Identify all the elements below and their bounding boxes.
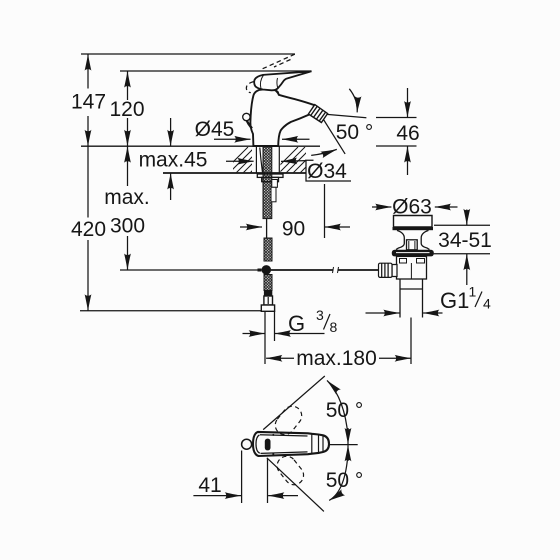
mounting washer under deck [257,174,283,177]
svg-text:4: 4 [483,296,491,312]
svg-text:G: G [288,311,305,336]
dimension O63 [372,206,458,208]
countertop deck section [81,146,320,173]
top view: pop-up knob [242,439,252,449]
dimension 147 [87,54,89,146]
deck hatching right [272,147,326,173]
svg-text:120: 120 [109,98,144,121]
top view: angle arc upper [327,380,348,436]
dimension 420 [87,146,89,311]
svg-text:G1: G1 [440,288,469,313]
angle label 50 deg (spout) [349,89,357,113]
svg-text:max.: max. [104,186,150,209]
mounting nut [262,177,279,181]
deck hatching left [222,147,276,173]
waste pivot nut [392,265,397,277]
pop-up rod guide [271,187,276,202]
flexible hose lower braid [264,275,272,291]
dimension 46 [376,88,417,175]
svg-text:1: 1 [469,284,477,300]
rod ball joint [262,265,272,275]
extension line top (raised lever level, 147/420 upper ref) [81,53,295,55]
hose curve inside deck hole [260,148,263,173]
dimension G1 1/4 [366,312,443,314]
dimension O45 [214,138,310,140]
faucet body [250,89,314,146]
svg-text:46: 46 [396,122,419,145]
dimension 90 [240,184,350,238]
waste pivot knob [379,263,393,277]
waste flange [392,250,434,257]
pop-up horizontal rod [271,269,379,271]
top view: dashed lever rotated up [271,402,305,438]
svg-text:max.180: max.180 [296,347,377,370]
dimension 41 [193,451,298,504]
label O34 with box [281,160,351,181]
lever raised dashed [246,54,294,92]
G3/8 nut [264,296,273,305]
dimension 120 [127,71,129,146]
plug neck [396,230,404,249]
svg-text:max.45: max.45 [139,149,208,172]
dimension 34-51 [434,210,490,286]
pop-up rod vertical [266,219,268,238]
waste plug head [394,216,433,228]
extension line lever tip level (120 upper ref) [120,70,312,72]
G3/8 nut flange [261,305,274,311]
top view: angle arc lower [329,453,348,500]
dimension max.180 [266,318,411,365]
top view: lever handle [253,432,329,456]
svg-text:420: 420 [71,218,106,241]
pop-up rod clamp [272,180,278,188]
waste tailpipe [400,279,423,318]
top view: 50 deg line upper [263,376,325,430]
svg-text:34-51: 34-51 [438,229,492,252]
top view: dashed lever rotated down [273,452,307,488]
dimension G 3/8 [243,312,325,365]
svg-text:50 °: 50 ° [326,469,364,492]
waste body [397,256,427,279]
svg-text:90: 90 [282,218,305,241]
aerator [308,105,327,123]
top view: 50 deg line lower [267,458,324,512]
svg-text:Ø34: Ø34 [307,160,347,183]
top view: horizontal ref line [329,444,358,446]
extension line hose end level (420 lower ref) [80,310,261,312]
leader aerator to O34 box [324,120,346,154]
svg-text:41: 41 [198,474,221,497]
plug stem [407,240,418,250]
faucet lever [254,71,311,90]
extension line rod level (max.300 lower ref) [120,269,258,271]
svg-text:300: 300 [110,215,145,238]
svg-text:50 °: 50 ° [326,399,364,422]
threaded shank [263,147,272,219]
svg-text:8: 8 [330,319,338,335]
hose ferrule [264,291,272,297]
dimension max.45 [170,118,172,200]
dimension max.300 [127,146,129,269]
pop-up knob (front view) [243,113,250,120]
top view: handle logo bar [265,439,271,451]
svg-text:3: 3 [316,307,324,323]
svg-text:147: 147 [71,91,106,114]
svg-text:50 °: 50 ° [336,121,374,144]
flexible hose upper braid [264,238,272,261]
plug lip [393,227,434,230]
svg-text:Ø45: Ø45 [195,118,235,141]
outlet stream line [327,114,367,117]
